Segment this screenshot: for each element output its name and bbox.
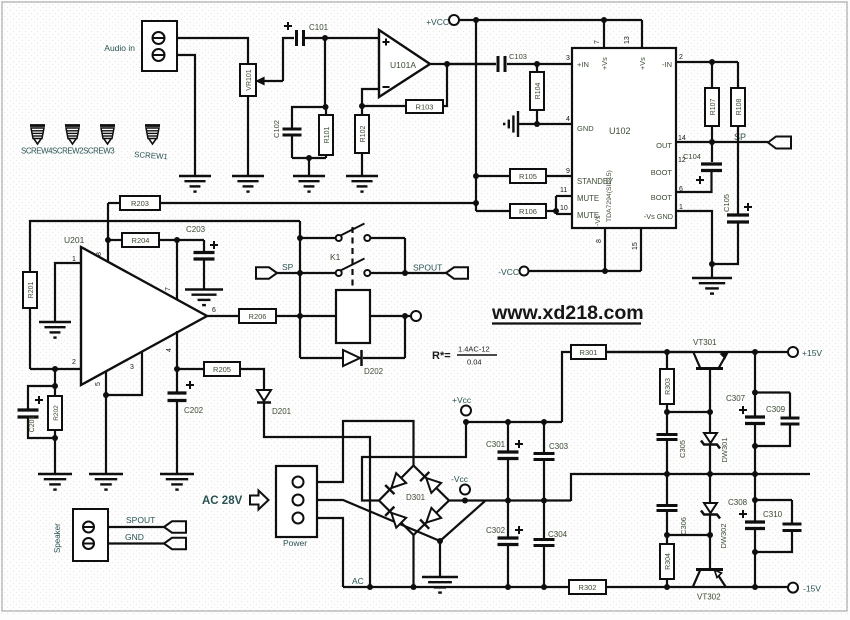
svg-text:OUT: OUT xyxy=(656,141,672,150)
svg-text:C310: C310 xyxy=(763,510,783,519)
svg-text:2: 2 xyxy=(679,54,683,61)
svg-text:R105: R105 xyxy=(519,172,537,181)
svg-text:VR101: VR101 xyxy=(246,69,253,91)
svg-text:R202: R202 xyxy=(53,405,60,421)
svg-text:R203: R203 xyxy=(131,199,149,208)
svg-text:www.xd218.com: www.xd218.com xyxy=(491,302,644,324)
svg-text:K1: K1 xyxy=(330,252,341,262)
svg-text:C306: C306 xyxy=(679,517,688,535)
svg-text:-Vcc: -Vcc xyxy=(451,474,469,484)
svg-text:U201: U201 xyxy=(64,235,85,245)
svg-text:R206: R206 xyxy=(249,312,267,321)
svg-text:VT301: VT301 xyxy=(693,338,717,347)
svg-text:+Vs: +Vs xyxy=(638,57,647,70)
svg-text:SPOUT: SPOUT xyxy=(126,515,155,525)
svg-text:R*=: R*= xyxy=(432,350,451,362)
svg-text:2: 2 xyxy=(72,359,76,366)
svg-text:GND: GND xyxy=(577,124,594,133)
svg-text:R204: R204 xyxy=(132,236,150,245)
svg-text:3: 3 xyxy=(130,364,134,371)
svg-text:C308: C308 xyxy=(728,498,748,507)
svg-text:-VCC: -VCC xyxy=(498,267,519,277)
svg-text:SP: SP xyxy=(282,262,294,272)
svg-text:VT302: VT302 xyxy=(697,593,721,602)
svg-text:DW302: DW302 xyxy=(719,523,728,548)
svg-text:C203: C203 xyxy=(186,225,206,234)
svg-text:11: 11 xyxy=(560,187,567,194)
svg-text:+IN: +IN xyxy=(577,60,589,69)
svg-text:-Vs: -Vs xyxy=(595,215,602,226)
svg-text:5: 5 xyxy=(95,382,102,386)
svg-text:7: 7 xyxy=(165,287,172,291)
svg-text:9: 9 xyxy=(566,168,570,175)
svg-text:D201: D201 xyxy=(272,407,292,416)
svg-text:1.4AC-12: 1.4AC-12 xyxy=(458,345,490,354)
svg-text:R301: R301 xyxy=(580,348,598,357)
svg-text:C104: C104 xyxy=(683,152,701,161)
svg-text:U102: U102 xyxy=(609,126,631,136)
svg-text:+15V: +15V xyxy=(802,348,822,358)
svg-text:6: 6 xyxy=(212,307,216,314)
svg-text:1: 1 xyxy=(72,256,76,263)
svg-text:C305: C305 xyxy=(678,440,687,458)
svg-text:+Vcc: +Vcc xyxy=(452,395,472,405)
svg-text:4: 4 xyxy=(566,116,570,123)
svg-text:Power: Power xyxy=(283,538,307,548)
svg-text:U101A: U101A xyxy=(390,60,416,70)
svg-text:R107: R107 xyxy=(710,99,717,116)
svg-text:C102: C102 xyxy=(272,120,281,138)
svg-text:C201: C201 xyxy=(29,416,36,433)
svg-text:R201: R201 xyxy=(28,282,35,299)
svg-text:C307: C307 xyxy=(726,394,746,403)
svg-text:0.04: 0.04 xyxy=(467,358,482,367)
svg-text:C304: C304 xyxy=(548,530,568,539)
svg-text:R205: R205 xyxy=(213,365,231,374)
svg-text:15: 15 xyxy=(632,242,639,250)
svg-text:Speaker: Speaker xyxy=(53,523,62,553)
svg-text:D301: D301 xyxy=(406,493,426,502)
svg-text:R101: R101 xyxy=(324,127,331,144)
svg-text:R103: R103 xyxy=(416,102,434,111)
svg-text:TDA7294(SIP15): TDA7294(SIP15) xyxy=(606,170,613,222)
svg-text:R108: R108 xyxy=(736,99,743,116)
svg-text:R104: R104 xyxy=(535,83,542,100)
svg-text:GND: GND xyxy=(125,532,144,542)
svg-text:3: 3 xyxy=(566,55,570,62)
svg-text:C101: C101 xyxy=(309,23,329,32)
svg-text:R302: R302 xyxy=(579,583,597,592)
svg-text:C309: C309 xyxy=(766,405,786,414)
svg-text:C302: C302 xyxy=(486,526,506,535)
svg-text:-IN: -IN xyxy=(662,60,672,69)
svg-text:7: 7 xyxy=(594,40,601,44)
svg-text:C105: C105 xyxy=(722,194,731,212)
svg-text:8: 8 xyxy=(96,252,103,256)
svg-text:SPOUT: SPOUT xyxy=(413,263,442,273)
svg-text:C303: C303 xyxy=(549,442,569,451)
svg-text:+Vs: +Vs xyxy=(600,57,609,70)
svg-text:Audio in: Audio in xyxy=(104,43,135,53)
svg-text:AC: AC xyxy=(352,576,364,586)
svg-text:AC 28V: AC 28V xyxy=(202,495,243,507)
svg-text:SCREW4SCREW2SCREW3: SCREW4SCREW2SCREW3 xyxy=(21,147,115,156)
svg-text:-Vs GND: -Vs GND xyxy=(644,212,673,221)
svg-text:+VCC: +VCC xyxy=(426,17,449,27)
svg-text:R304: R304 xyxy=(665,553,672,570)
svg-text:10: 10 xyxy=(560,205,568,212)
svg-text:C103: C103 xyxy=(509,52,527,61)
svg-text:R106: R106 xyxy=(519,207,537,216)
svg-text:C301: C301 xyxy=(486,440,506,449)
svg-text:MUTE: MUTE xyxy=(577,194,599,203)
svg-text:BOOT: BOOT xyxy=(651,193,673,202)
svg-text:D202: D202 xyxy=(364,367,384,376)
svg-text:C202: C202 xyxy=(184,406,204,415)
svg-text:R102: R102 xyxy=(360,126,367,143)
svg-text:13: 13 xyxy=(624,36,631,44)
svg-text:8: 8 xyxy=(596,239,603,243)
svg-text:R303: R303 xyxy=(665,378,672,395)
svg-text:4: 4 xyxy=(166,348,173,352)
svg-text:SP: SP xyxy=(734,132,746,142)
svg-text:BOOT: BOOT xyxy=(651,168,673,177)
svg-text:-15V: -15V xyxy=(803,584,821,594)
svg-text:DW301: DW301 xyxy=(720,437,729,462)
